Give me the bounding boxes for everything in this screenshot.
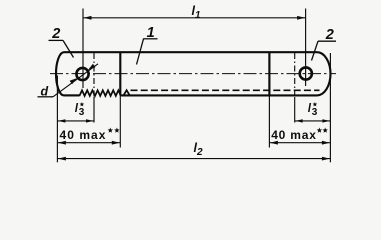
dimension 40max left line	[57, 142, 120, 144]
dimension 40max right line	[269, 142, 330, 144]
dimension l3 left line	[57, 120, 94, 122]
transition tooth triangle	[124, 90, 130, 95]
leader of label 2 right	[312, 41, 319, 60]
blade horizontal centerline	[50, 73, 336, 75]
leader of label d through hole	[53, 64, 98, 97]
dimension l2 line	[57, 158, 330, 160]
right l3 boundary dash-dot line	[294, 53, 296, 97]
right pin hole	[300, 67, 312, 79]
right hole vertical centerline / l1 extension	[305, 9, 307, 87]
left 40max extension line below blade	[119, 95, 121, 147]
right blade end extension line	[329, 53, 331, 162]
leader of label 2 left	[63, 40, 74, 57]
blade outline item 1	[64, 51, 317, 53]
left hole vertical centerline / l1 extension	[82, 9, 84, 89]
left step line of end section	[119, 52, 121, 95]
svg-text:3: 3	[312, 107, 318, 118]
svg-text:40 max: 40 max	[271, 128, 317, 142]
dimension l3 right line	[295, 120, 331, 122]
left l3 boundary dash-dot line	[93, 53, 95, 97]
svg-text:2: 2	[51, 26, 60, 42]
blade bottom edge left of teeth	[64, 94, 80, 96]
tooth root dashed line	[131, 89, 320, 91]
dimension l1 line	[83, 17, 306, 19]
blade bottom edge right of teeth	[121, 94, 317, 96]
blade right end arc	[317, 52, 331, 95]
svg-text:l1: l1	[192, 4, 201, 21]
right step line of end section	[268, 52, 270, 95]
blade left end arc	[56, 52, 64, 95]
leader of label 1	[137, 39, 144, 65]
svg-text:40 max: 40 max	[60, 128, 107, 142]
saw teeth zigzag	[79, 90, 121, 96]
svg-text:l2: l2	[194, 141, 203, 158]
left pin hole d	[76, 68, 88, 80]
left blade end extension line	[56, 76, 58, 163]
right 40max extension line below blade	[268, 95, 270, 147]
svg-text:3: 3	[79, 107, 85, 118]
